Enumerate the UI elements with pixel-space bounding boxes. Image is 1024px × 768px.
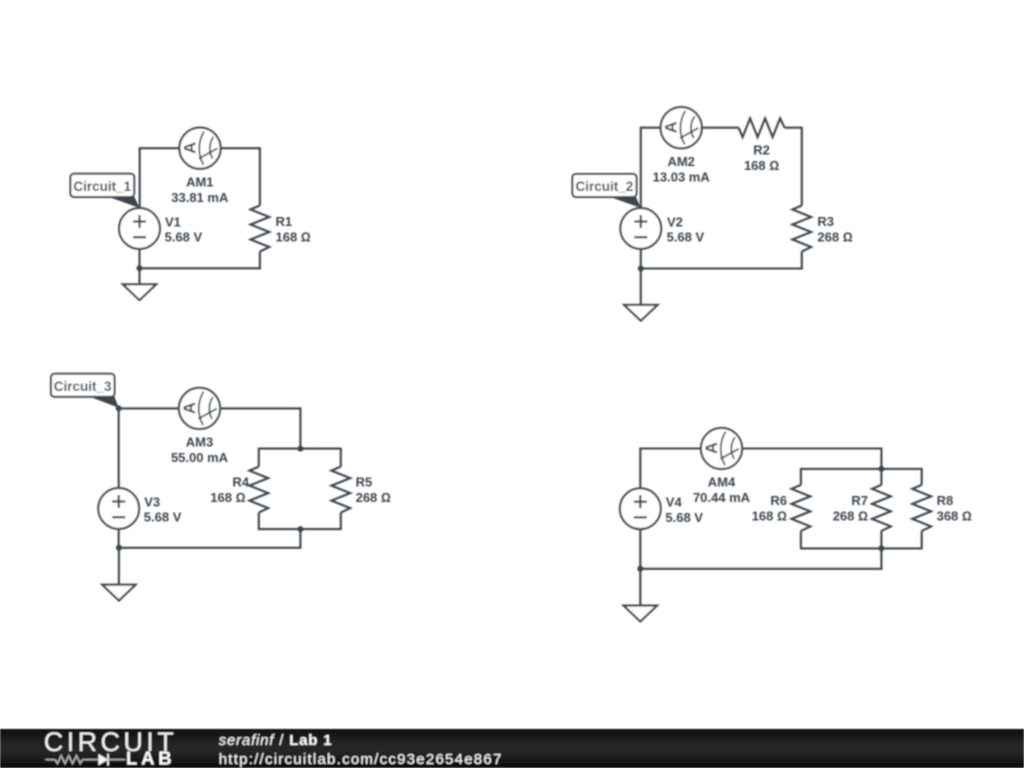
svg-text:Circuit_3: Circuit_3 bbox=[54, 379, 112, 394]
svg-text:168 Ω: 168 Ω bbox=[210, 490, 245, 505]
svg-text:AM4: AM4 bbox=[708, 475, 736, 490]
ammeter AM2 bbox=[661, 107, 702, 148]
wire bottom horizontal bbox=[641, 267, 803, 269]
logo wire to diode bbox=[83, 759, 99, 761]
svg-text:55.00 mA: 55.00 mA bbox=[171, 450, 229, 465]
wire top-left V1 to ammeter bbox=[140, 147, 180, 149]
wire R4 top lead bbox=[258, 448, 260, 467]
svg-text:V3: V3 bbox=[144, 494, 160, 509]
wire right vertical to R1 bbox=[259, 147, 261, 205]
svg-text:R3: R3 bbox=[817, 214, 834, 229]
svg-text:R2: R2 bbox=[753, 142, 770, 157]
wire R5 top lead bbox=[340, 448, 342, 467]
wire R7 bottom lead bbox=[880, 531, 882, 549]
svg-text:http://circuitlab.com/cc93e265: http://circuitlab.com/cc93e2654e867 bbox=[219, 751, 503, 768]
wire V3 bottom to node bbox=[118, 529, 120, 548]
wire bottom horizontal bbox=[140, 267, 261, 269]
svg-text:Circuit_2: Circuit_2 bbox=[576, 179, 634, 194]
svg-text:AM1: AM1 bbox=[186, 174, 213, 189]
wire ammeter to right drop bbox=[742, 447, 881, 449]
wire R4 bottom lead bbox=[258, 513, 260, 531]
svg-text:70.44 mA: 70.44 mA bbox=[693, 490, 751, 505]
svg-text:13.03 mA: 13.03 mA bbox=[653, 169, 711, 184]
logo schematic squiggle wire bbox=[45, 759, 55, 761]
logo wire after diode bbox=[108, 759, 125, 761]
node junction dot top-left bbox=[116, 405, 122, 411]
bottom rail of parallel pair bbox=[259, 528, 341, 530]
bottom long horizontal wire bbox=[640, 568, 882, 570]
svg-text:R8: R8 bbox=[937, 493, 954, 508]
voltage source V3 bbox=[98, 488, 139, 529]
wire V4 bottom to node bbox=[639, 529, 641, 569]
junction dot top rail bbox=[297, 446, 303, 452]
svg-text:Circuit_1: Circuit_1 bbox=[73, 179, 131, 194]
ammeter AM1 bbox=[179, 128, 220, 169]
wire vertical down to top rail bbox=[880, 448, 882, 469]
wire R6 top lead bbox=[800, 468, 802, 485]
resistor R2 bbox=[739, 118, 785, 137]
wire left vertical from node to V3 bbox=[118, 407, 120, 488]
wire top horizontal node to ammeter bbox=[119, 407, 180, 409]
svg-text:33.81 mA: 33.81 mA bbox=[171, 190, 229, 205]
wire top-left V2 to ammeter bbox=[641, 127, 661, 129]
svg-text:AM3: AM3 bbox=[186, 435, 213, 450]
resistor R4 bbox=[249, 467, 268, 513]
junction dot bottom rail bbox=[297, 526, 303, 532]
svg-text:LAB: LAB bbox=[126, 748, 175, 768]
node junction dot bbox=[638, 266, 644, 272]
svg-text:5.68 V: 5.68 V bbox=[667, 230, 705, 245]
svg-text:168 Ω: 168 Ω bbox=[744, 158, 779, 173]
wire V2 bottom to node bbox=[640, 249, 642, 269]
resistor R8 bbox=[912, 485, 931, 531]
svg-text:R4: R4 bbox=[232, 475, 249, 490]
svg-text:268 Ω: 268 Ω bbox=[356, 490, 391, 505]
flag label Circuit_2 bbox=[572, 174, 641, 208]
wire R3 bottom bbox=[801, 252, 803, 270]
svg-text:5.68 V: 5.68 V bbox=[665, 510, 703, 525]
logo resistor zigzag bbox=[55, 756, 83, 764]
top rail of parallel pair bbox=[259, 448, 341, 450]
ground bbox=[102, 548, 135, 600]
wire right vertical down to rail bbox=[299, 407, 301, 448]
ground bbox=[624, 269, 657, 321]
ammeter AM3 bbox=[179, 388, 220, 429]
wire down from bottom rail bbox=[299, 529, 301, 548]
svg-text:serafinf / Lab 1: serafinf / Lab 1 bbox=[219, 732, 333, 749]
wire R1 bottom bbox=[259, 252, 261, 270]
wire V1 bottom to node bbox=[138, 249, 140, 268]
voltage source V4 bbox=[620, 488, 661, 529]
resistor R6 bbox=[792, 485, 811, 531]
wire down from bottom rail bbox=[880, 548, 882, 568]
wire R5 bottom lead bbox=[340, 513, 342, 531]
wire R6 bottom lead bbox=[800, 531, 802, 550]
voltage source V2 bbox=[620, 208, 661, 249]
flag label Circuit_3 bbox=[51, 374, 119, 408]
svg-text:168 Ω: 168 Ω bbox=[276, 230, 311, 245]
ground bbox=[123, 268, 156, 300]
flag label Circuit_1 bbox=[70, 174, 139, 208]
node junction dot bbox=[637, 566, 643, 572]
bottom rail of parallel trio bbox=[801, 547, 922, 549]
svg-text:V4: V4 bbox=[666, 495, 683, 510]
svg-text:AM2: AM2 bbox=[667, 154, 694, 169]
wire left vertical bbox=[139, 147, 141, 208]
wire top-left V4 to ammeter bbox=[640, 447, 701, 449]
logo diode bbox=[98, 754, 108, 766]
svg-text:R7: R7 bbox=[851, 493, 868, 508]
wire R2 to top-right corner bbox=[785, 127, 802, 129]
footer bar bbox=[0, 729, 1024, 768]
svg-text:5.68 V: 5.68 V bbox=[144, 510, 182, 525]
wire left vertical bbox=[640, 127, 642, 209]
svg-text:168 Ω: 168 Ω bbox=[752, 509, 787, 524]
svg-text:368 Ω: 368 Ω bbox=[937, 509, 972, 524]
voltage source V1 bbox=[119, 208, 160, 249]
svg-text:268 Ω: 268 Ω bbox=[833, 509, 868, 524]
top rail of parallel trio bbox=[801, 468, 922, 470]
resistor R7 bbox=[872, 485, 891, 531]
junction dot top rail bbox=[878, 466, 884, 472]
node junction dot bbox=[137, 265, 143, 271]
wire right vertical to R3 bbox=[801, 127, 803, 206]
wire R8 top lead bbox=[921, 468, 923, 485]
wire ammeter to R2 bbox=[702, 127, 739, 129]
resistor R1 bbox=[251, 206, 270, 252]
ammeter AM4 bbox=[701, 428, 742, 469]
svg-text:R1: R1 bbox=[276, 214, 293, 229]
bottom long horizontal wire bbox=[119, 547, 301, 549]
node junction dot bottom-left bbox=[116, 545, 122, 551]
junction dot bottom rail bbox=[878, 545, 884, 551]
svg-text:268 Ω: 268 Ω bbox=[817, 230, 852, 245]
svg-text:R6: R6 bbox=[770, 493, 787, 508]
svg-text:V2: V2 bbox=[667, 214, 683, 229]
wire R7 top lead bbox=[880, 468, 882, 485]
wire R8 bottom lead bbox=[921, 531, 923, 550]
ground bbox=[624, 569, 657, 621]
svg-text:R5: R5 bbox=[356, 475, 373, 490]
wire left vertical bbox=[639, 448, 641, 489]
svg-text:V1: V1 bbox=[165, 214, 181, 229]
resistor R3 bbox=[792, 206, 811, 252]
svg-text:5.68 V: 5.68 V bbox=[165, 230, 203, 245]
wire ammeter to top-right corner bbox=[221, 147, 260, 149]
resistor R5 bbox=[331, 467, 350, 513]
wire ammeter to right corner bbox=[220, 407, 300, 409]
